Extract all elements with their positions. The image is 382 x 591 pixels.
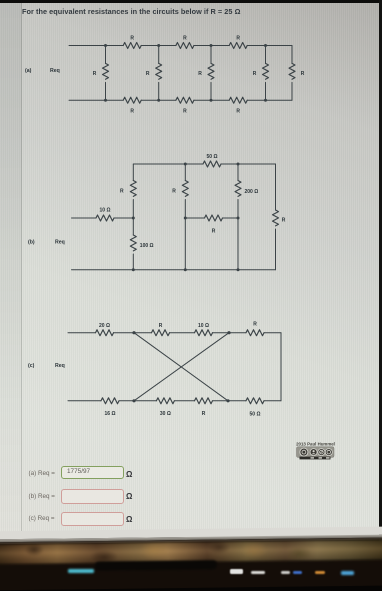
- junction (b) mid v2: [184, 217, 187, 220]
- junction (b) bottom v2: [184, 268, 187, 271]
- junction (b) mid v3: [237, 217, 240, 220]
- title text: [22, 7, 241, 16]
- answer label (c): [29, 515, 55, 522]
- wire: (b) top rail left segment: [133, 163, 203, 165]
- junction (a) top node 3: [210, 44, 213, 47]
- resistor R (a) shunt 2: [146, 46, 162, 101]
- wire: (c) right edge vertical: [280, 333, 282, 401]
- orange dash: [315, 571, 325, 574]
- junction (b) mid v1: [132, 217, 135, 220]
- svg-text:R: R: [172, 189, 176, 195]
- wire: (a) bottom rail segment 3: [194, 99, 229, 101]
- answer input (b): [61, 489, 124, 504]
- circuit (a) label: [25, 68, 32, 74]
- cyan led left: [68, 569, 94, 573]
- resistor R (a) top series 2: [176, 36, 194, 49]
- svg-text:(c): (c): [28, 363, 35, 369]
- wire: (a) bottom rail to right edge: [247, 99, 292, 101]
- CC license badge: [288, 438, 348, 468]
- junction (a) top node 2: [157, 44, 160, 47]
- answer label (a): [29, 470, 55, 477]
- resistor 10 Ohm (b) input: [72, 208, 134, 221]
- laptop hinge bar: [95, 560, 217, 570]
- svg-text:R: R: [301, 71, 305, 77]
- svg-text:R: R: [253, 71, 257, 77]
- white key: [230, 569, 243, 574]
- svg-text:R: R: [130, 108, 134, 114]
- junction (b) top v3: [237, 163, 240, 166]
- circuit (c) label: [28, 363, 35, 369]
- resistor R (a) right-edge shunt: [289, 46, 305, 101]
- wire: (a) bottom rail segment 2: [141, 99, 176, 101]
- junction (a) bottom node 1: [104, 99, 107, 102]
- resistor R (b) right edge: [273, 164, 286, 270]
- svg-text:Req: Req: [55, 363, 65, 369]
- resistor R (b) left upper shunt: [120, 164, 136, 218]
- junction (c) node X1: [132, 331, 135, 334]
- resistor R (a) bottom series 1: [123, 97, 141, 114]
- svg-text:R: R: [236, 108, 240, 114]
- node Req label (a): [50, 68, 60, 74]
- omega (a): [126, 470, 132, 479]
- wire: (a) top-left lead: [69, 45, 123, 47]
- svg-text:50 Ω: 50 Ω: [207, 154, 218, 160]
- svg-text:10 Ω: 10 Ω: [100, 208, 111, 214]
- bottom photo stack (tilted): [0, 527, 382, 591]
- svg-text:R: R: [183, 36, 187, 42]
- junction (c) node Y1: [132, 399, 135, 402]
- resistor R (c) top-right: [229, 322, 281, 336]
- wire: (a) top rail segment 3: [194, 45, 229, 47]
- svg-text:R: R: [183, 108, 187, 114]
- resistor R (a) bottom series 2: [176, 97, 194, 114]
- white dash 2: [281, 571, 290, 574]
- junction (a) bottom node 3: [210, 99, 213, 102]
- answer input (c): [61, 512, 124, 526]
- svg-text:2013 Paul Hummel: 2013 Paul Hummel: [296, 442, 335, 447]
- svg-text:R: R: [198, 71, 202, 77]
- resistor 200 Ohm (b) right shunt: [235, 164, 258, 270]
- resistor R (a) shunt 3: [198, 46, 214, 101]
- junction (a) top node 1: [104, 44, 107, 47]
- svg-text:R: R: [253, 322, 257, 328]
- junction (c) node X2: [227, 331, 230, 334]
- resistor 20 Ohm (c) top-left: [68, 323, 134, 336]
- wire: (a) bottom-left lead: [69, 99, 123, 101]
- resistor R (a) shunt 4: [253, 46, 269, 101]
- resistor R (b) middle shunt: [172, 164, 188, 270]
- circuit (b) label: [28, 240, 35, 246]
- resistor R (a) shunt 1: [93, 46, 109, 101]
- blue dash: [293, 571, 302, 574]
- resistor R (a) bottom series 3: [229, 97, 247, 114]
- wire: (a) top rail to right edge: [247, 45, 292, 47]
- svg-text:30 Ω: 30 Ω: [160, 411, 171, 417]
- svg-text:Req: Req: [55, 240, 65, 246]
- svg-text:R: R: [130, 36, 134, 42]
- svg-text:R: R: [236, 36, 240, 42]
- resistor 50 Ohm (c) bottom-right: [228, 398, 281, 418]
- svg-text:(a): (a): [25, 68, 32, 74]
- node Req label (c): [55, 363, 65, 369]
- cyan glow right: [341, 571, 354, 575]
- resistor R (c) top second: [134, 323, 195, 336]
- junction (a) top node 4: [264, 44, 267, 47]
- svg-text:16 Ω: 16 Ω: [105, 411, 116, 417]
- svg-text:50 Ω: 50 Ω: [250, 412, 261, 418]
- svg-text:R: R: [159, 323, 163, 329]
- svg-text:R: R: [282, 218, 286, 224]
- resistor R (c) bottom third: [195, 398, 229, 417]
- svg-text:(b): (b): [28, 240, 35, 246]
- resistor R (b) bridge: [185, 215, 238, 235]
- junction (c) node Y2: [226, 399, 229, 402]
- node Req label (b): [55, 240, 65, 246]
- resistor 30 Ohm (c) bottom second: [134, 398, 195, 417]
- omega (c): [126, 515, 132, 524]
- answer value (a): [67, 468, 90, 475]
- resistor 100 Ohm (b) left lower shunt: [130, 218, 153, 270]
- monitor right bezel: [379, 0, 382, 545]
- wire: (b) top rail right segment: [221, 163, 276, 165]
- answer input (a): [61, 466, 124, 480]
- junction (b) top v2: [184, 163, 187, 166]
- svg-text:R: R: [212, 229, 216, 235]
- wire: (a) top rail segment 2: [141, 45, 176, 47]
- wire: (c) diagonal X1 to Y2: [134, 333, 228, 401]
- resistor 10 Ohm (c) top third: [195, 323, 230, 336]
- svg-text:10 Ω: 10 Ω: [198, 323, 209, 329]
- resistor R (a) top series 1: [123, 36, 141, 49]
- wire: (b) bottom rail: [72, 269, 276, 271]
- white dash: [251, 571, 265, 575]
- resistor R (a) top series 3: [229, 36, 247, 49]
- svg-text:200 Ω: 200 Ω: [245, 189, 259, 195]
- svg-text:R: R: [202, 411, 206, 417]
- junction (a) bottom node 2: [157, 99, 160, 102]
- answer label (b): [29, 493, 55, 500]
- junction (b) bottom v1: [132, 268, 135, 271]
- monitor top bezel: [0, 0, 382, 3]
- svg-text:Req: Req: [50, 68, 60, 74]
- svg-text:R: R: [146, 71, 150, 77]
- left gutter column: [0, 3, 22, 537]
- svg-text:20 Ω: 20 Ω: [99, 323, 110, 329]
- svg-text:R: R: [93, 71, 97, 77]
- junction (b) bottom v3: [237, 268, 240, 271]
- omega (b): [126, 492, 132, 501]
- svg-text:100 Ω: 100 Ω: [140, 243, 154, 249]
- resistor 16 Ohm (c) bottom-left: [68, 398, 134, 417]
- junction (a) bottom node 4: [264, 99, 267, 102]
- resistor 50 Ohm (b) top: [203, 154, 221, 167]
- wire: (c) diagonal Y1 to X2: [134, 333, 229, 401]
- svg-text:R: R: [120, 189, 124, 195]
